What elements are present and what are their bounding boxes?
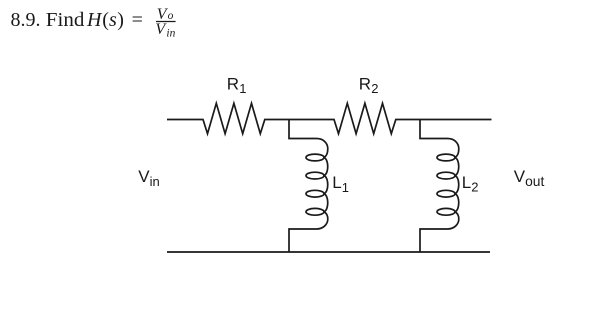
svg-text:R: R — [227, 74, 239, 93]
svg-text:V: V — [138, 167, 150, 186]
problem statement text — [11, 9, 143, 31]
svg-text:Find: Find — [46, 9, 85, 31]
node label Vin — [138, 167, 159, 189]
svg-text:R: R — [359, 74, 371, 93]
svg-text:2: 2 — [371, 81, 378, 96]
svg-text:1: 1 — [239, 81, 246, 96]
svg-text:1: 1 — [342, 180, 349, 195]
node label Vout — [514, 167, 545, 189]
inductor L2 — [420, 120, 459, 253]
resistor R2 label — [359, 74, 379, 96]
svg-text:2: 2 — [471, 180, 478, 195]
inductor L2 label — [462, 173, 479, 195]
bottom wire — [167, 251, 490, 253]
svg-text:H: H — [86, 9, 103, 31]
svg-text:L: L — [332, 173, 341, 192]
svg-text:s: s — [109, 9, 117, 31]
fraction Vo/Vin — [155, 6, 175, 39]
svg-text:o: o — [168, 10, 174, 22]
svg-text:=: = — [132, 9, 143, 31]
top wire with resistors R1 and R2 — [167, 103, 492, 133]
svg-text:L: L — [462, 173, 471, 192]
inductor L1 label — [332, 173, 349, 195]
svg-text:): ) — [117, 9, 124, 31]
svg-text:V: V — [514, 167, 526, 186]
svg-text:out: out — [525, 174, 544, 189]
svg-text:in: in — [150, 174, 160, 189]
resistor R1 label — [227, 74, 247, 96]
inductor L1 — [289, 120, 328, 253]
svg-text:in: in — [166, 27, 175, 39]
svg-text:8.9.: 8.9. — [11, 9, 41, 31]
